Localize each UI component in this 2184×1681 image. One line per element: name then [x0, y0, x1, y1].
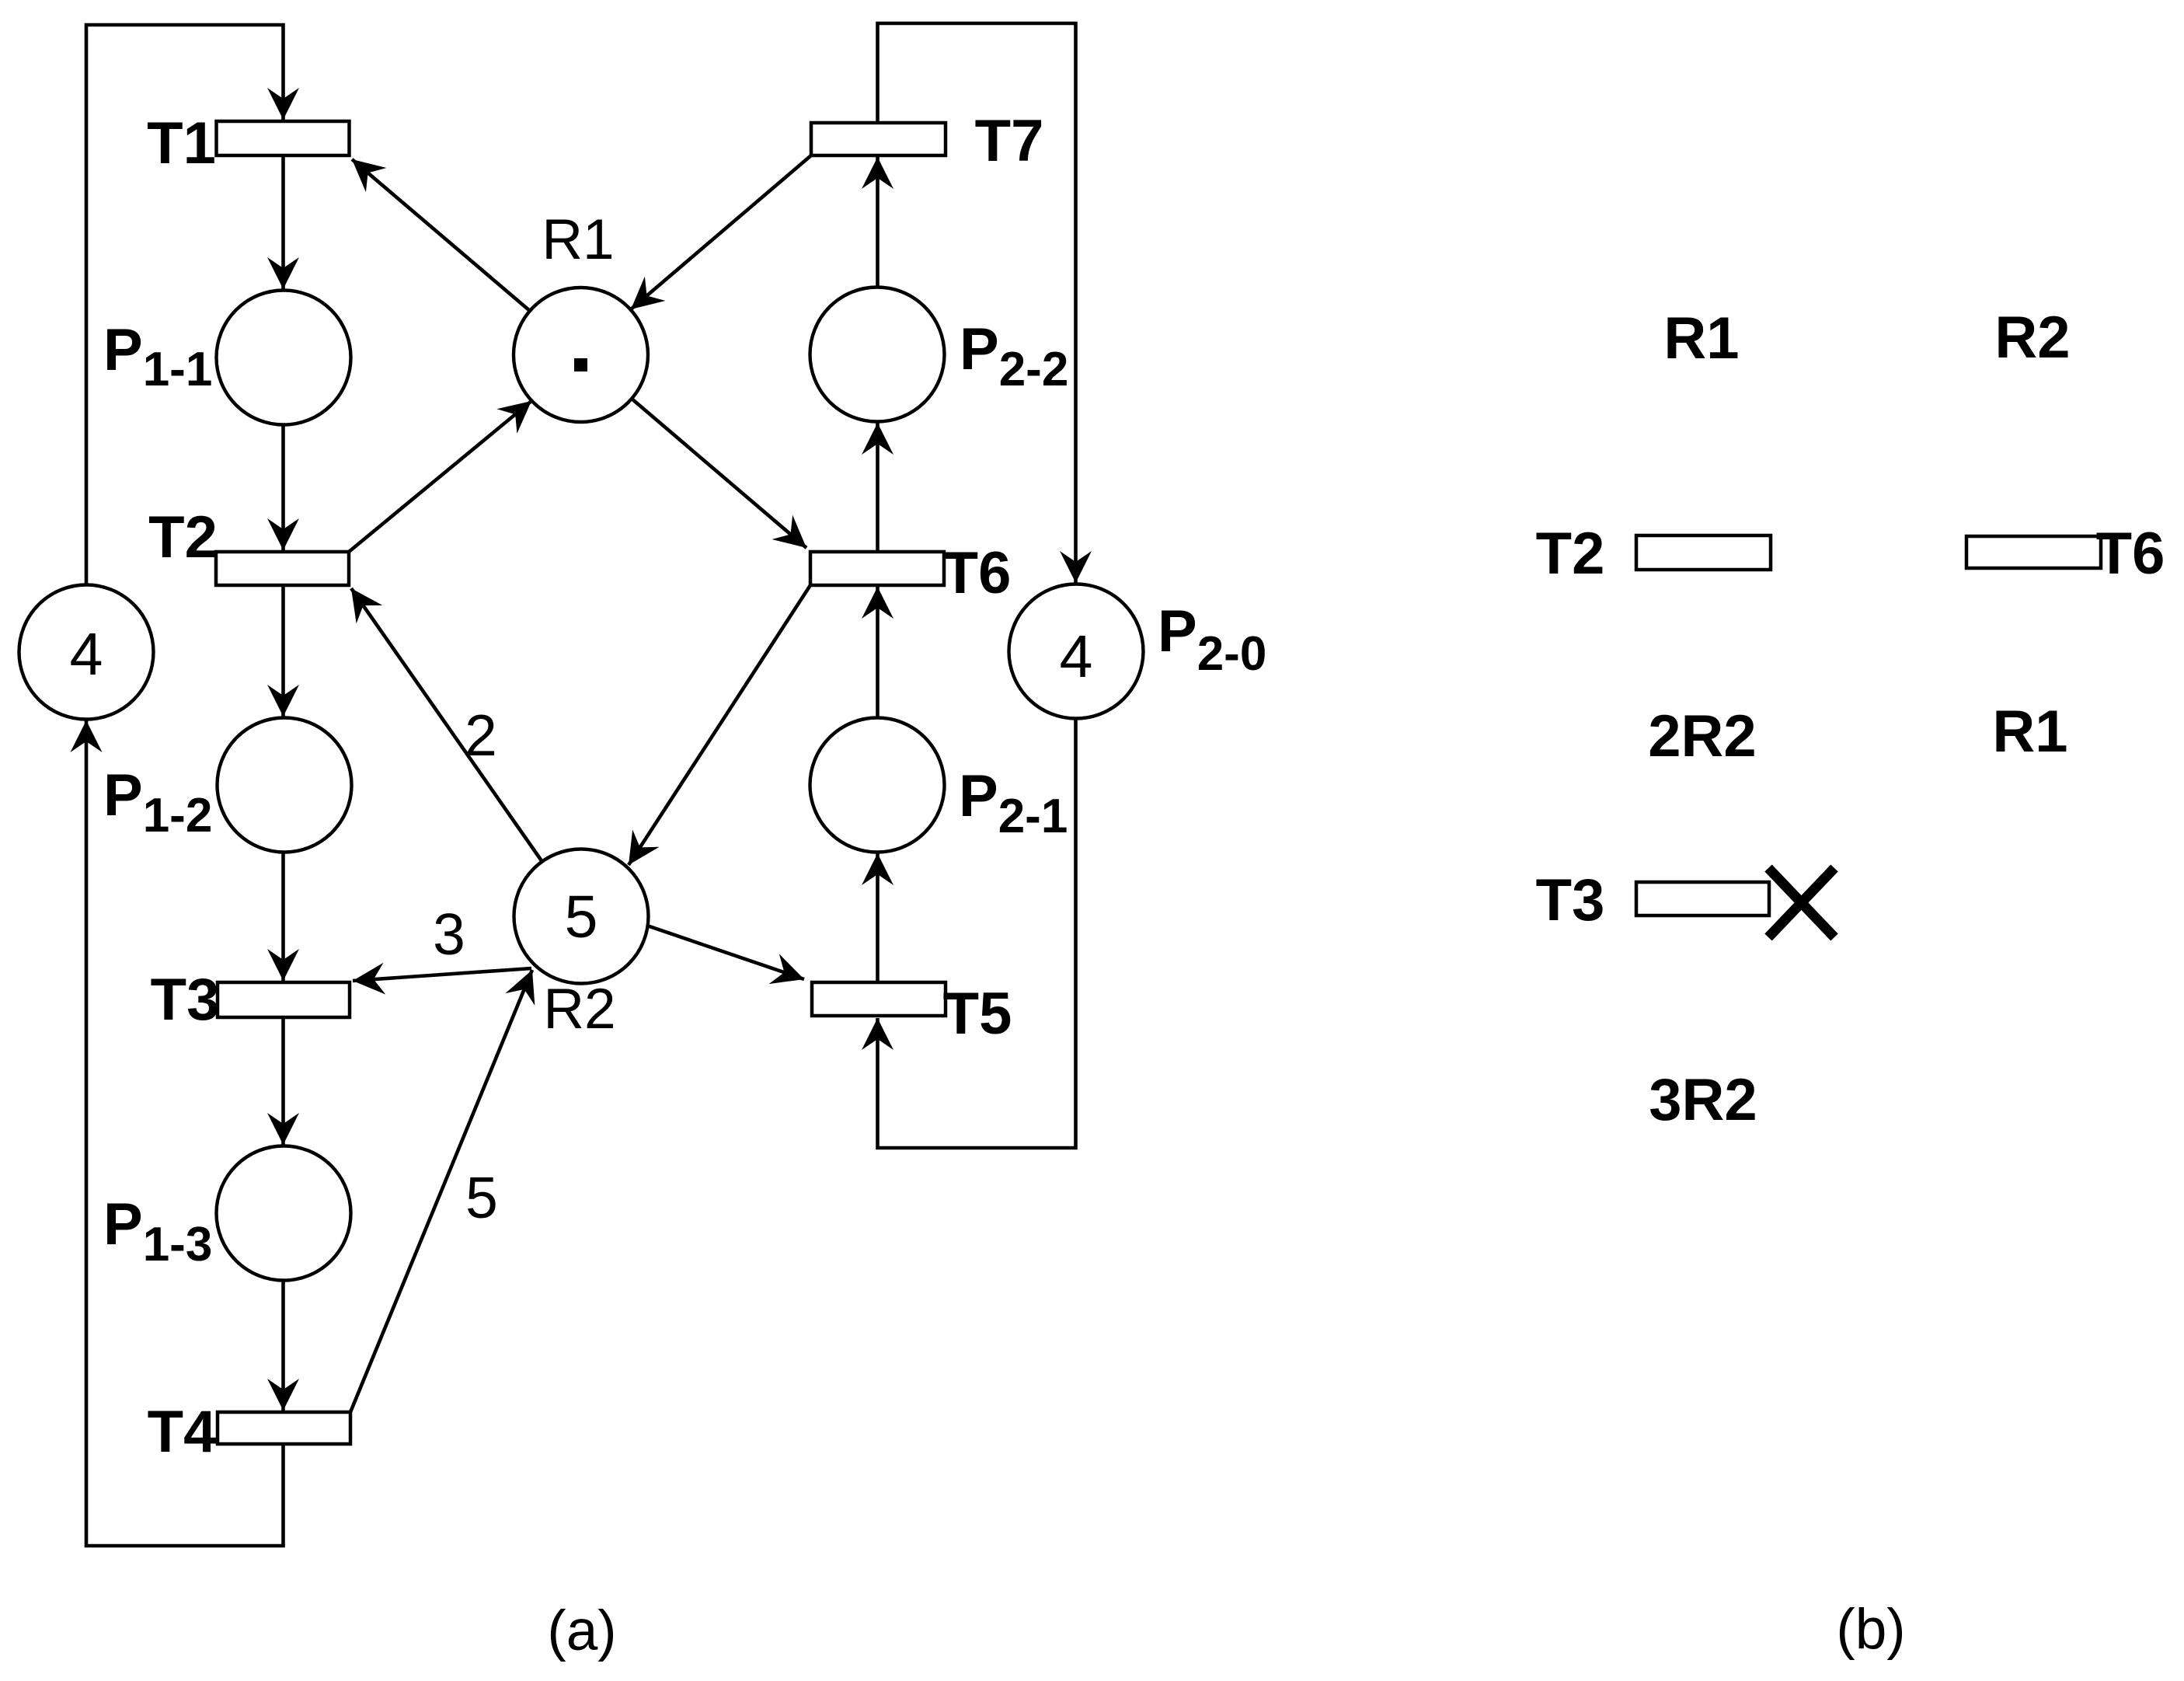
wire P2-0 bottom loop to T5: [878, 719, 1076, 1149]
wire T3 to P1-3: [281, 1017, 285, 1145]
svg-text:R1: R1: [542, 208, 614, 271]
svg-text:R1: R1: [1663, 305, 1739, 371]
svg-text:T4: T4: [148, 1399, 217, 1465]
transition T5: [812, 982, 946, 1016]
place P1-0 (capacity 4): [19, 585, 154, 720]
place R2: [514, 849, 649, 984]
svg-text:T5: T5: [943, 981, 1012, 1047]
wire P1-0 top to T1 (left loop top): [86, 25, 284, 585]
svg-text:T2: T2: [1536, 521, 1605, 587]
svg-text:R2: R2: [543, 978, 615, 1041]
wire P2-2 to T7: [876, 157, 880, 288]
token dot in R1: [574, 358, 587, 371]
transition T7: [811, 123, 946, 155]
arc T2 to R1: [349, 401, 531, 552]
svg-text:5: 5: [465, 1165, 498, 1230]
svg-text:(a): (a): [547, 1599, 616, 1662]
transition T1: [217, 121, 350, 155]
arc T6 to R2: [629, 585, 810, 865]
transition T3: [218, 982, 350, 1017]
arc R2 to T3 (weight 3): [353, 968, 531, 981]
arc R2 to T5: [647, 926, 804, 979]
svg-text:T6: T6: [2096, 521, 2165, 587]
svg-text:4: 4: [70, 621, 103, 688]
svg-text:T6: T6: [942, 540, 1012, 606]
wire T1 to P1-1: [281, 155, 285, 289]
svg-text:3: 3: [433, 902, 465, 967]
place R1: [514, 288, 648, 422]
transition T2: [216, 552, 349, 585]
wire P2-1 to T6: [876, 587, 880, 718]
transition T4: [218, 1412, 350, 1444]
svg-text:2: 2: [465, 703, 497, 768]
transition T2 (b): [1636, 535, 1771, 570]
wire P1-2 to T3: [281, 853, 285, 982]
svg-text:4: 4: [1060, 623, 1093, 690]
transition T3 (b): [1636, 882, 1769, 915]
transition T6 (b): [1966, 536, 2101, 568]
wire T5 to P2-1: [876, 853, 880, 982]
arc R1 to T6: [632, 399, 806, 548]
wire P1-1 to T2: [281, 425, 285, 551]
wire P1-3 to T4: [281, 1281, 285, 1411]
place P2-2: [810, 288, 945, 422]
arc R1 to T1: [352, 159, 530, 311]
place P1-2: [218, 718, 352, 853]
svg-text:R2: R2: [1994, 305, 2070, 371]
place P2-1: [810, 718, 945, 853]
arc T7 to R1: [631, 155, 811, 309]
wire T7 top loop to P2-0: [878, 23, 1076, 583]
wire T4 bottom loop to P1-0: [86, 720, 284, 1546]
svg-text:T3: T3: [151, 967, 220, 1033]
svg-text:T7: T7: [975, 108, 1044, 174]
wire T6 to P2-2: [876, 423, 880, 552]
svg-text:5: 5: [565, 884, 598, 950]
svg-text:T2: T2: [148, 504, 218, 570]
transition T6: [810, 552, 944, 585]
place P1-3: [217, 1146, 351, 1281]
place P2-0 (capacity 4): [1009, 584, 1144, 719]
svg-text:T1: T1: [147, 110, 216, 176]
arc R2 to T2 (weight 2): [351, 588, 542, 862]
svg-text:2R2: 2R2: [1648, 703, 1756, 769]
svg-text:R1: R1: [1992, 699, 2067, 765]
arc T4 to R2 (weight 5): [350, 970, 532, 1412]
svg-text:T3: T3: [1536, 867, 1605, 933]
svg-text:(b): (b): [1836, 1598, 1905, 1661]
svg-text:3R2: 3R2: [1649, 1067, 1757, 1133]
place P1-1: [217, 291, 351, 425]
wire T2 to P1-2: [281, 585, 285, 717]
X mark on T3 (b): [1768, 868, 1834, 937]
